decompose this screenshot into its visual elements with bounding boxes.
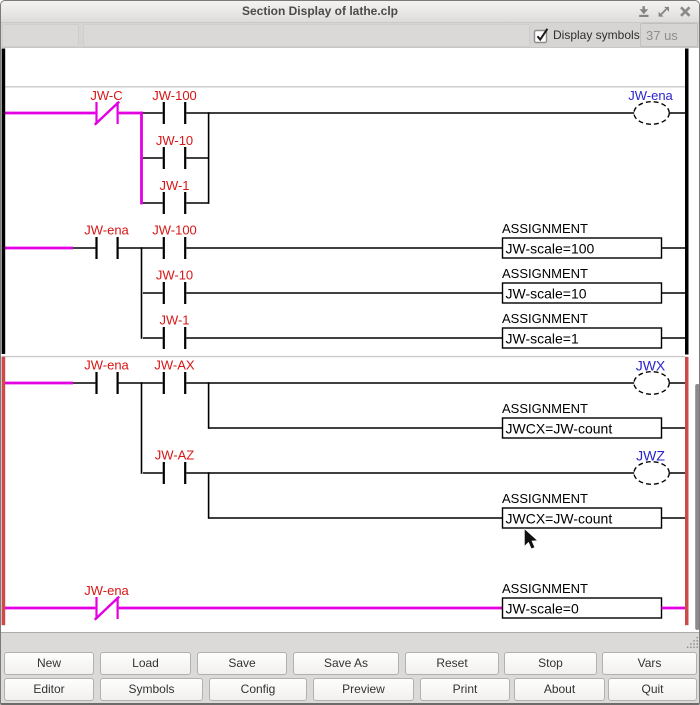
rung 2: powered wire from left rail	[4, 247, 73, 250]
rung 3: coil JWX	[634, 372, 669, 395]
rung 2: wire block 2 to right rail	[662, 292, 687, 294]
rung 2: contact JW-10 (normally open)	[164, 282, 185, 304]
rung 4: powered wire block to right rail	[662, 607, 687, 610]
rung 3: contact JW-AX (normally open)	[164, 372, 185, 394]
rung 1: wire stub branch to contact JW-10	[143, 157, 163, 159]
rung 3: assignment block JWCX=JW-count 2	[503, 508, 662, 528]
rung 2: wire JW-ena to contact JW-100	[119, 247, 163, 249]
rung 2: wire JW-100 to assignment block 1	[186, 247, 503, 249]
left power rail (black, upper sections)	[2, 49, 6, 355]
rung 2: wire JW-10 to assignment block 2	[186, 292, 503, 294]
rung 4: powered wire contact to assignment block	[119, 607, 503, 610]
section separator line middle	[2, 356, 685, 358]
rung 3: wire JW-AX to coil JWX	[186, 382, 634, 384]
rung 2: wire stub branch to contact JW-1	[143, 337, 163, 339]
resize grip dots	[687, 637, 698, 648]
vertical scrollbar thumb	[695, 384, 699, 630]
minimize icon	[639, 6, 648, 17]
rung 2: wire JW-1 to assignment block 3	[186, 337, 503, 339]
rung 4: contact JW-ena (normally closed, powered)	[95, 597, 120, 620]
rung 2: assignment block JW-scale=10	[503, 283, 662, 303]
rung 3: wire coil JWX to right rail	[669, 382, 686, 384]
rung 1: contact JW-C (normally closed, powered)	[95, 102, 120, 125]
rung 2: wire to contact JW-ena	[73, 247, 95, 249]
rung 2: wire stub branch to contact JW-10	[143, 292, 163, 294]
rung 2: wire block 1 to right rail	[662, 247, 687, 249]
rung 1: wire JW-C to branch (powered)	[119, 112, 143, 115]
title bar	[0, 0, 700, 23]
rung 3: wire to contact JW-ena	[73, 382, 95, 384]
rung 3: wire block 1 to right rail	[662, 427, 687, 429]
bottom button panel	[0, 632, 700, 705]
rung 3: assignment block JWCX=JW-count 1	[503, 418, 662, 438]
mouse cursor	[525, 529, 537, 548]
rung 4: powered wire from left rail to contact	[4, 607, 95, 610]
rung 3: branch rail left	[141, 382, 143, 474]
left power rail (red, selected section)	[2, 357, 6, 625]
rung 1: wire stub branch to contact JW-1	[143, 202, 163, 204]
maximize icon	[659, 7, 669, 17]
close icon	[681, 7, 690, 16]
rung 3: wire block 2 to right rail	[662, 517, 687, 519]
right power rail (red, selected section)	[685, 357, 689, 625]
rung 3: wire coil JWZ to right rail	[669, 472, 686, 474]
right power rail (black, upper sections)	[685, 49, 689, 355]
rung 3: wire JW-AZ to coil JWZ	[186, 472, 634, 474]
section separator line top	[2, 86, 685, 88]
rung 3: branch rail to assignment 1	[208, 382, 210, 429]
rung 3: wire branch to assignment block 1	[209, 427, 503, 429]
rung 2: wire block 3 to right rail	[662, 337, 687, 339]
toolbar	[0, 23, 700, 48]
rung 1: wire JW-100 to coil JW-ena	[186, 112, 634, 114]
rung 2: contact JW-ena (normally open)	[97, 237, 118, 259]
rung 1: contact JW-10 (normally open)	[164, 147, 185, 169]
rung 2: contact JW-1 (normally open)	[164, 327, 185, 349]
rung 3: wire JW-ena to contact JW-AX	[119, 382, 163, 384]
rung 2: assignment block JW-scale=100	[503, 238, 662, 258]
rung 3: powered wire from left rail	[4, 382, 73, 385]
rung 3: wire branch to assignment block 2	[209, 517, 503, 519]
rung 1: right branch rail	[208, 112, 210, 204]
rung 3: contact JW-ena (normally open)	[97, 372, 118, 394]
rung 3: contact JW-AZ (normally open)	[164, 462, 185, 484]
rung 3: coil JWZ	[634, 462, 669, 485]
rung 2: contact JW-100 (normally open)	[164, 237, 185, 259]
rung 3: branch rail to assignment 2	[208, 472, 210, 519]
rung 1: contact JW-1 (normally open)	[164, 192, 185, 214]
rung 1: left branch rail (powered)	[140, 112, 143, 205]
rung 1: wire stub JW-10 to right branch	[186, 157, 208, 159]
rung 3: wire stub branch to contact JW-AZ	[143, 472, 163, 474]
rung 2: branch rail	[141, 247, 143, 339]
rung 2: assignment block JW-scale=1	[503, 328, 662, 348]
rung 1: coil JW-ena	[634, 102, 669, 125]
rung 1: contact JW-100 (normally open)	[164, 102, 185, 124]
rung 4: assignment block JW-scale=0	[503, 598, 662, 618]
rung 1: wire branch to contact JW-100	[143, 112, 163, 114]
rung 1: wire powered from left rail to contact JW-C	[4, 112, 95, 115]
rung 1: wire coil to right rail	[669, 112, 686, 114]
rung 1: wire stub JW-1 to right branch	[186, 202, 208, 204]
